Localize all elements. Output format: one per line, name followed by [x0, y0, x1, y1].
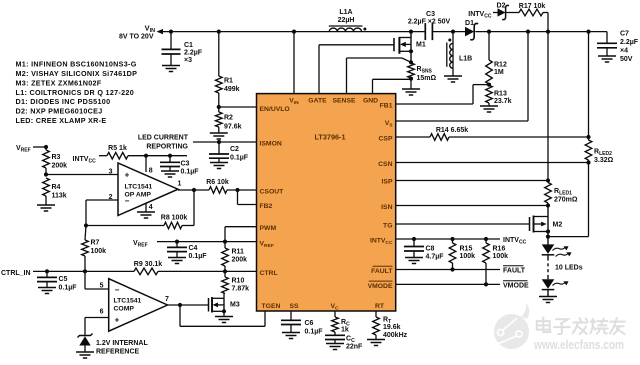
svg-text:22µH: 22µH — [338, 17, 355, 24]
svg-text:D2: NXP PMEG6010CEJ: D2: NXP PMEG6010CEJ — [16, 107, 103, 116]
svg-text:200k: 200k — [52, 163, 68, 170]
resistor R8 100k — [86, 190, 194, 229]
wire INTVCC pin to net label right — [396, 238, 500, 240]
wire comp output to M3 gate — [168, 303, 209, 307]
resistor R14 6.65k on CSP wire — [396, 127, 589, 140]
pin label CSP — [379, 136, 393, 143]
pin 3 label — [109, 168, 113, 175]
IC title LT3796-1 — [314, 133, 345, 142]
wire comp output to TGEN — [180, 305, 265, 326]
pin label VREF — [260, 240, 274, 249]
resistor RSNS 15mOhm — [408, 60, 437, 82]
pin label EN/UVLO — [260, 106, 290, 113]
ground below C3 (op-amp) — [161, 171, 179, 177]
node junction PWM-R11 on VREF — [223, 240, 227, 244]
svg-text:LTC1541: LTC1541 — [125, 184, 153, 191]
svg-text:270mΩ: 270mΩ — [554, 197, 578, 204]
svg-text:7.87k: 7.87k — [232, 286, 250, 293]
svg-text:2.2µF: 2.2µF — [620, 39, 639, 46]
capacitor C2 0.1uF — [209, 140, 249, 163]
net label FAULT right — [503, 266, 526, 275]
resistor RLED1 270mOhm — [545, 183, 578, 206]
watermark chinese text dianzifashaoyou — [537, 318, 625, 335]
pin label CSN — [378, 161, 392, 168]
svg-text:CSP: CSP — [379, 136, 393, 143]
ground below RT — [367, 340, 385, 346]
wire CTRL line — [33, 270, 134, 272]
pin label SENSE — [332, 97, 356, 104]
svg-text:R14 6.65k: R14 6.65k — [436, 127, 468, 134]
svg-text:R4: R4 — [52, 184, 61, 191]
svg-text:C7: C7 — [620, 31, 629, 38]
resistor R11 200k — [222, 242, 247, 272]
svg-text:100k: 100k — [460, 253, 476, 260]
pin label TG — [383, 223, 392, 230]
ground below C1 — [162, 66, 180, 72]
svg-text:0.1µF: 0.1µF — [189, 253, 208, 260]
capacitor C1 — [162, 32, 203, 66]
svg-text:FB2: FB2 — [260, 203, 273, 210]
wire rail C3 to D1 — [432, 31, 465, 33]
wire ISP pin to RLED1 top — [396, 178, 550, 182]
svg-text:C2: C2 — [230, 146, 239, 153]
svg-text:REFERENCE: REFERENCE — [96, 349, 140, 356]
wire CSN pin to RLED2 bottom — [396, 160, 591, 164]
wire to EN/UVLO pin — [219, 106, 257, 108]
node junction R15-FAULT — [450, 267, 454, 271]
ground below C4 — [168, 258, 186, 264]
svg-text:C3: C3 — [426, 11, 435, 18]
capacitor C7 2.2uF x4 50V — [597, 31, 639, 64]
svg-text:D2: D2 — [497, 3, 506, 10]
svg-text:VMODE: VMODE — [368, 283, 393, 290]
wire VIN rail left segment — [162, 31, 425, 33]
node junction C1 on VIN rail — [169, 30, 173, 34]
svg-text:1M: 1M — [494, 69, 504, 76]
resistor RLED2 3.32 ohm — [585, 32, 613, 164]
net label LED CURRENT REPORTING — [138, 135, 189, 151]
watermark logo circle — [494, 303, 529, 349]
svg-text:CTRL: CTRL — [260, 270, 278, 277]
svg-text:FB1: FB1 — [380, 103, 393, 110]
node junction FB1-R12-R13 — [487, 83, 491, 87]
node junction L1B on rail — [451, 30, 455, 34]
pin label RT — [375, 303, 385, 310]
node junction C3b on R5 wire — [168, 154, 172, 158]
capacitor CC 22nF — [325, 332, 363, 351]
svg-text:C1: C1 — [184, 42, 193, 49]
wire VREF to R3 — [33, 145, 48, 149]
svg-text:97.6k: 97.6k — [224, 124, 242, 131]
capacitor C3 2.2uF x2 50V — [408, 11, 451, 40]
svg-text:TG: TG — [383, 223, 392, 230]
inductor L1B — [447, 32, 472, 76]
svg-text:C3: C3 — [181, 161, 190, 168]
pin label GATE — [308, 97, 327, 104]
svg-text:7: 7 — [165, 296, 169, 303]
svg-text:−: − — [125, 196, 130, 205]
svg-text:R10: R10 — [232, 278, 245, 285]
node junction R17 riser on rail — [546, 30, 550, 34]
svg-text:15mΩ: 15mΩ — [417, 75, 437, 82]
pin label ISMON — [260, 141, 282, 148]
wire VMODE pin to net label — [396, 283, 500, 285]
svg-text:19.6k: 19.6k — [383, 324, 401, 331]
svg-text:C6: C6 — [305, 320, 314, 327]
pin 1 label — [178, 181, 182, 188]
net label VMODE right — [503, 281, 529, 290]
svg-text:50V: 50V — [620, 56, 633, 63]
resistor R17 10k — [506, 3, 548, 16]
svg-text:100k: 100k — [91, 248, 107, 255]
watermark url text — [533, 337, 624, 352]
resistor R6 10k — [206, 179, 257, 194]
svg-text:3: 3 — [109, 168, 113, 175]
ground below C5 — [38, 288, 56, 294]
pin label FB1 — [380, 103, 393, 110]
svg-text:R9 30.1k: R9 30.1k — [134, 261, 163, 268]
ground below M3 — [215, 317, 233, 323]
pin label VC — [330, 303, 339, 312]
pin 7 label — [165, 296, 169, 303]
svg-text:REPORTING: REPORTING — [146, 144, 188, 151]
capacitor C6 0.1uF on SS — [281, 311, 323, 336]
svg-text:CSOUT: CSOUT — [260, 188, 285, 195]
svg-text:LT3796-1: LT3796-1 — [314, 133, 345, 142]
node junction CSOUT-FB2 — [235, 188, 239, 192]
svg-text:M3: M3 — [230, 302, 240, 309]
wire ISMON pin — [193, 141, 257, 143]
svg-text:10 LEDs: 10 LEDs — [555, 265, 583, 272]
svg-text:22nF: 22nF — [346, 344, 363, 351]
svg-text:R11: R11 — [232, 249, 245, 256]
LED D-led2 with light arrows — [542, 278, 569, 297]
comparator U2 LTC1541 — [109, 279, 168, 332]
wire PWM to VREF rail — [225, 227, 257, 242]
svg-text:8: 8 — [149, 168, 153, 175]
pin label VS — [385, 120, 394, 129]
wire VIN pin riser — [293, 32, 295, 94]
wire op-amp pin 2 feedback — [86, 200, 118, 226]
node junction R12 on rail — [487, 30, 491, 34]
svg-text:RT: RT — [375, 303, 385, 310]
svg-text:www.elecfans.com: www.elecfans.com — [533, 337, 624, 352]
label 10 LEDs — [555, 265, 583, 272]
resistor R5 1k — [99, 145, 187, 159]
ground below CC — [326, 344, 344, 350]
svg-text:FAULT: FAULT — [371, 268, 393, 275]
wire SENSE pin to M1 source — [347, 58, 412, 94]
svg-text:CSN: CSN — [378, 161, 392, 168]
wire M3 source to ground — [223, 311, 225, 316]
inductor L1A 22uH — [329, 9, 363, 32]
parts list annotation — [16, 60, 138, 125]
resistor R1 499k — [216, 32, 240, 107]
node junction R7-R8-pin2 — [84, 223, 88, 227]
label 1.2V INTERNAL REFERENCE — [96, 340, 148, 356]
resistor R7 100k — [82, 226, 106, 272]
svg-text:2.2µF ×2 50V: 2.2µF ×2 50V — [408, 19, 451, 26]
ground below L1B — [444, 76, 462, 82]
svg-text:400kHz: 400kHz — [383, 332, 408, 339]
svg-text:GND: GND — [363, 97, 378, 104]
pin label VMODE with overline — [368, 281, 393, 290]
svg-text:100k: 100k — [493, 253, 509, 260]
svg-text:R6 10k: R6 10k — [206, 179, 229, 186]
net label VREF left — [16, 145, 31, 154]
svg-text:M1: M1 — [416, 42, 426, 49]
net label INTVCC mid-left — [73, 156, 97, 165]
resistor R13 23.7k — [486, 85, 512, 106]
capacitor C4 0.1uF — [167, 240, 207, 261]
svg-text:R8 100k: R8 100k — [161, 214, 188, 221]
node junction VIN pin on VIN rail — [292, 30, 296, 34]
zener diode 1.2V reference — [78, 334, 93, 353]
svg-text:×4: ×4 — [620, 48, 628, 55]
capacitor C3 0.1uF (op-amp) — [160, 156, 199, 176]
svg-text:M1: INFINEON BSC160N10NS3-G: M1: INFINEON BSC160N10NS3-G — [16, 60, 137, 69]
pin label ISN — [381, 204, 392, 211]
node junction op-amp output — [178, 188, 209, 192]
svg-text:0.1µF: 0.1µF — [181, 169, 200, 176]
svg-text:SS: SS — [289, 303, 299, 310]
svg-text:ISP: ISP — [382, 179, 393, 186]
net label VIN with input arrow — [119, 24, 163, 41]
pin label CSOUT — [260, 188, 285, 195]
svg-text:×3: ×3 — [184, 57, 192, 64]
net label VREF mid — [133, 240, 148, 249]
ground below RSNS — [402, 79, 420, 95]
svg-text:R13: R13 — [494, 91, 507, 98]
svg-text:D1: DIODES INC PDS5100: D1: DIODES INC PDS5100 — [16, 97, 111, 106]
pin label INTVCC — [370, 238, 393, 247]
transistor M2 PMOS — [530, 206, 563, 234]
resistor R15 100k — [449, 237, 475, 270]
wire TG pin to M2 gate — [396, 223, 530, 225]
svg-text:−: − — [115, 286, 120, 295]
transistor M1 NMOS — [394, 32, 426, 63]
svg-text:L1B: L1B — [459, 56, 472, 63]
node junction M1 drain on rail — [409, 30, 413, 34]
resistor R12 1M — [486, 32, 507, 84]
svg-text:LED CURRENT: LED CURRENT — [138, 135, 189, 142]
svg-text:L1: COILTRONICS DR Q 127-220: L1: COILTRONICS DR Q 127-220 — [16, 88, 135, 97]
wire comp pin5 to CTRL node — [85, 271, 109, 289]
node junction VS riser on rail — [526, 30, 530, 34]
svg-text:R2: R2 — [224, 115, 233, 122]
node junction R11-R10 on CTRL — [223, 269, 227, 273]
resistor R10 7.87k — [222, 271, 249, 293]
net label CTRL_IN — [1, 270, 31, 277]
resistor R16 100k — [483, 237, 508, 285]
wire FB1 to divider — [396, 85, 489, 104]
svg-text:ISN: ISN — [381, 204, 392, 211]
phase dot of L1B — [448, 39, 451, 42]
wire R17 riser down to rail and ISP — [547, 13, 549, 181]
ground below C6 — [282, 333, 300, 339]
svg-text:R1: R1 — [224, 78, 233, 85]
ground below C7 — [598, 56, 616, 62]
wire rail D1 to C7 — [475, 31, 607, 33]
svg-text:C4: C4 — [189, 245, 198, 252]
transistor M3 NMOS — [209, 294, 240, 314]
wire to op-amp pin 3 — [46, 174, 118, 176]
net label INTVCC right — [503, 237, 527, 246]
ground below C2 — [210, 163, 228, 169]
resistor RC 1k on VC — [332, 311, 350, 334]
ground below C8 — [405, 258, 423, 264]
svg-text:1.2V INTERNAL: 1.2V INTERNAL — [96, 340, 148, 347]
svg-text:R5 1k: R5 1k — [108, 145, 127, 152]
wire VS pin to output rail — [396, 32, 528, 121]
pin 8 connection of op-amp U1 — [146, 156, 153, 175]
pin label FB2 — [260, 203, 273, 210]
pin 2 label — [109, 194, 113, 201]
svg-text:CTRL_IN: CTRL_IN — [1, 270, 31, 277]
svg-text:M3: ZETEX ZXM61N02F: M3: ZETEX ZXM61N02F — [16, 78, 102, 87]
svg-text:2.2µF: 2.2µF — [184, 50, 203, 57]
pin label PWM — [260, 225, 277, 232]
svg-text:200k: 200k — [232, 257, 248, 264]
svg-text:FAULT: FAULT — [503, 268, 526, 275]
svg-text:6: 6 — [100, 309, 104, 316]
ground below op-amp pin 4 — [137, 212, 155, 218]
svg-text:R3: R3 — [52, 154, 61, 161]
svg-text:R17 10k: R17 10k — [519, 3, 546, 10]
pin label SS — [289, 303, 299, 310]
capacitor C8 4.7uF — [404, 237, 444, 261]
node junction R3-R4-opamp+ — [44, 172, 48, 176]
pin label CTRL — [260, 270, 278, 277]
node junction pin8 on R5 wire — [144, 154, 148, 158]
node junction C5 on CTRL — [45, 269, 49, 273]
svg-text:3.32Ω: 3.32Ω — [594, 157, 614, 164]
wire VREF net — [157, 241, 257, 243]
svg-text:LED: CREE XLAMP XR-E: LED: CREE XLAMP XR-E — [16, 116, 107, 125]
svg-text:4.7µF: 4.7µF — [426, 254, 445, 261]
wire FB2 branch — [238, 190, 258, 205]
label R8 100k — [161, 214, 188, 221]
svg-text:0.1µF: 0.1µF — [59, 285, 78, 292]
ground below R2 — [210, 133, 228, 139]
pin 5 label — [100, 283, 104, 290]
svg-text:23.7k: 23.7k — [494, 98, 512, 105]
net label INTVCC top — [468, 11, 492, 20]
op-amp U1 LTC1541 — [118, 163, 178, 216]
pin label TGEN — [262, 303, 281, 310]
ground below R13 — [480, 106, 498, 112]
svg-text:R7: R7 — [91, 240, 100, 247]
svg-text:VMODE: VMODE — [503, 283, 529, 290]
LED D-led1 with light arrows — [542, 244, 572, 256]
wire comp pin6 to zener — [85, 318, 109, 336]
wire ISN pin to RLED1 bottom — [396, 203, 550, 207]
svg-text:4: 4 — [149, 204, 153, 211]
svg-text:1: 1 — [178, 181, 182, 188]
svg-text:M2: M2 — [553, 222, 563, 229]
wire RLED2 return to LED anode — [548, 163, 589, 237]
svg-text:+: + — [125, 171, 130, 180]
capacitor C5 0.1uF — [37, 271, 77, 291]
node junction LED string top — [546, 232, 550, 245]
svg-text:0.1µF: 0.1µF — [230, 155, 249, 162]
svg-text:ISMON: ISMON — [260, 141, 282, 148]
svg-text:8V TO 20V: 8V TO 20V — [119, 34, 154, 41]
op-amp U3 LT3796-1 IC body — [257, 94, 396, 311]
svg-text:D1: D1 — [465, 20, 474, 27]
svg-text:GATE: GATE — [308, 97, 327, 104]
svg-text:C5: C5 — [59, 276, 68, 283]
pin 4 connection and ground — [146, 203, 153, 212]
ground below zener — [76, 352, 94, 358]
svg-text:R15: R15 — [460, 246, 473, 253]
pin label FAULT with overline — [371, 266, 393, 275]
ground below R4 — [37, 205, 55, 211]
wire M1 gate to GATE pin — [319, 45, 394, 94]
pin label GND — [363, 97, 378, 104]
svg-text:499k: 499k — [224, 86, 240, 93]
node junction R16-VMODE — [484, 282, 488, 286]
svg-text:R16: R16 — [493, 246, 506, 253]
svg-text:1k: 1k — [341, 327, 349, 334]
resistor R4 113k — [43, 178, 67, 205]
resistor RT 19.6k — [373, 311, 408, 340]
svg-text:113k: 113k — [52, 193, 67, 200]
wire dashed LED string continuation — [547, 255, 549, 278]
svg-text:M2: VISHAY SILICONIX Si7461DP: M2: VISHAY SILICONIX Si7461DP — [16, 69, 138, 78]
pin 6 label — [100, 309, 104, 316]
resistor R9 30.1k — [134, 261, 257, 275]
phase dot of L1A — [363, 28, 366, 31]
resistor R3 200k — [43, 147, 67, 175]
diode D1 schottky — [465, 20, 478, 40]
svg-text:LTC1541: LTC1541 — [114, 298, 142, 305]
node junction RLED2 riser on rail — [586, 30, 590, 34]
wire GND pin to RSNS bottom — [373, 79, 412, 94]
node junction R1 on VIN rail — [217, 30, 221, 34]
node junction R7-comp on CTRL — [83, 269, 87, 273]
wire FAULT pin to net label — [396, 269, 500, 271]
ground below LED string — [539, 297, 557, 303]
svg-text:SENSE: SENSE — [332, 97, 356, 104]
diode D2 schottky — [493, 3, 509, 20]
node junction R1-R2-EN/UVLO — [217, 105, 221, 109]
svg-text:0.1µF: 0.1µF — [305, 329, 324, 336]
svg-text:TGEN: TGEN — [262, 303, 281, 310]
pin label ISP — [382, 179, 393, 186]
svg-text:C8: C8 — [426, 246, 435, 253]
svg-text:EN/UVLO: EN/UVLO — [260, 106, 290, 113]
pin label VIN top — [289, 97, 299, 106]
svg-text:L1A: L1A — [339, 9, 352, 16]
svg-text:R12: R12 — [494, 62, 507, 69]
svg-text:+: + — [115, 315, 120, 324]
svg-text:COMP: COMP — [114, 306, 135, 313]
svg-text:PWM: PWM — [260, 225, 277, 232]
resistor R2 97.6k — [216, 107, 242, 133]
